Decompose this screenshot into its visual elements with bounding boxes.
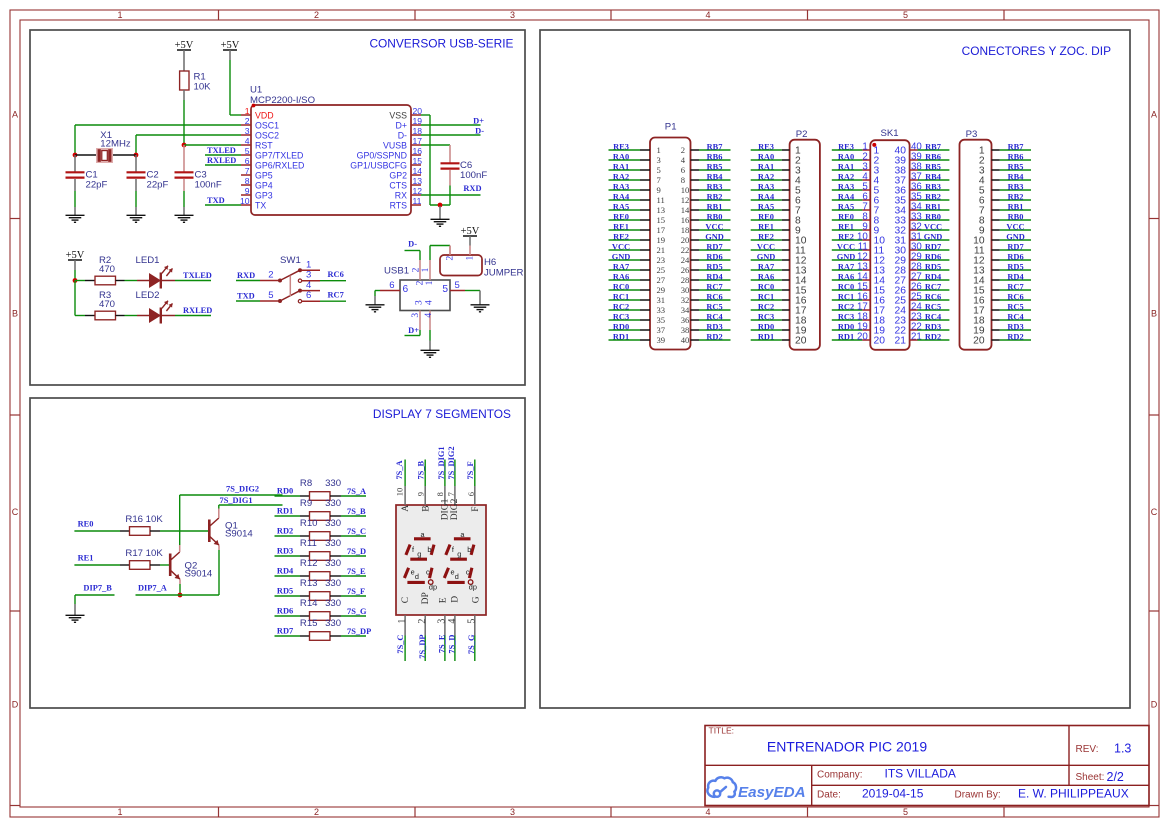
svg-text:3: 3 xyxy=(414,300,424,305)
svg-text:R13: R13 xyxy=(300,578,318,589)
svg-text:g: g xyxy=(457,549,461,558)
svg-text:C: C xyxy=(1151,507,1158,517)
svg-text:12: 12 xyxy=(413,186,423,196)
svg-text:2: 2 xyxy=(446,256,456,261)
svg-text:H6: H6 xyxy=(484,257,496,268)
svg-text:RC7: RC7 xyxy=(1007,282,1023,291)
svg-text:F: F xyxy=(471,507,481,512)
svg-text:3: 3 xyxy=(245,126,250,136)
svg-text:RB0: RB0 xyxy=(925,212,941,221)
svg-text:B: B xyxy=(12,309,18,319)
svg-text:R16 10K: R16 10K xyxy=(125,514,163,525)
svg-text:A: A xyxy=(1151,110,1157,120)
svg-text:40: 40 xyxy=(681,335,690,345)
svg-text:GP3: GP3 xyxy=(255,190,273,200)
svg-text:DIP7_A: DIP7_A xyxy=(138,584,167,593)
svg-text:RXD: RXD xyxy=(463,184,481,193)
svg-text:dp: dp xyxy=(429,583,437,592)
svg-text:5: 5 xyxy=(442,284,448,295)
svg-text:SW1: SW1 xyxy=(280,255,301,266)
svg-text:7S_DIG1: 7S_DIG1 xyxy=(220,496,253,505)
svg-text:20: 20 xyxy=(681,235,690,245)
svg-text:2: 2 xyxy=(681,145,685,155)
svg-text:2/2: 2/2 xyxy=(1107,770,1124,784)
svg-text:RC7: RC7 xyxy=(706,282,722,291)
svg-text:6: 6 xyxy=(466,492,476,496)
svg-text:36: 36 xyxy=(681,315,690,325)
svg-text:20: 20 xyxy=(413,106,423,116)
svg-text:4: 4 xyxy=(245,136,250,146)
svg-text:3: 3 xyxy=(510,10,515,20)
svg-text:RC7: RC7 xyxy=(328,291,344,300)
svg-text:VCC: VCC xyxy=(705,222,723,231)
svg-text:7S_G: 7S_G xyxy=(467,634,476,654)
svg-text:20: 20 xyxy=(874,336,886,347)
svg-text:7S_E: 7S_E xyxy=(438,634,447,653)
svg-text:29: 29 xyxy=(657,285,666,295)
svg-text:2: 2 xyxy=(245,116,250,126)
svg-text:P1: P1 xyxy=(665,122,677,133)
svg-text:8: 8 xyxy=(681,175,685,185)
svg-text:100nF: 100nF xyxy=(460,170,487,181)
svg-text:7S_DIG2: 7S_DIG2 xyxy=(226,485,259,494)
svg-text:TXLED: TXLED xyxy=(183,271,212,280)
svg-text:RE0: RE0 xyxy=(78,519,94,528)
svg-text:VUSB: VUSB xyxy=(383,140,407,150)
svg-text:20: 20 xyxy=(795,335,807,346)
svg-text:RD5: RD5 xyxy=(277,587,293,596)
svg-text:3: 3 xyxy=(411,313,421,318)
svg-text:11: 11 xyxy=(657,195,665,205)
svg-text:CONECTORES Y ZOC. DIP: CONECTORES Y ZOC. DIP xyxy=(962,44,1111,58)
svg-text:8: 8 xyxy=(435,492,445,496)
svg-text:R15: R15 xyxy=(300,618,318,629)
svg-text:26: 26 xyxy=(681,265,690,275)
svg-text:330: 330 xyxy=(325,598,341,609)
svg-text:4: 4 xyxy=(681,155,686,165)
svg-text:MCP2200-I/SO: MCP2200-I/SO xyxy=(250,95,315,106)
svg-text:D: D xyxy=(12,700,19,710)
svg-text:19: 19 xyxy=(657,235,666,245)
svg-text:VDD: VDD xyxy=(255,110,274,120)
svg-text:2019-04-15: 2019-04-15 xyxy=(862,787,924,801)
svg-text:R8: R8 xyxy=(300,478,312,489)
svg-text:RXLED: RXLED xyxy=(183,306,212,315)
svg-text:5: 5 xyxy=(245,146,250,156)
svg-text:D: D xyxy=(450,596,460,603)
svg-text:25: 25 xyxy=(657,265,666,275)
svg-text:100nF: 100nF xyxy=(195,179,222,190)
svg-text:39: 39 xyxy=(657,335,666,345)
svg-text:USB1: USB1 xyxy=(384,266,409,277)
svg-text:RD2: RD2 xyxy=(1007,332,1023,341)
svg-text:3: 3 xyxy=(306,270,311,281)
svg-text:7S_B: 7S_B xyxy=(347,507,366,516)
svg-text:g: g xyxy=(417,549,421,558)
svg-text:DISPLAY 7 SEGMENTOS: DISPLAY 7 SEGMENTOS xyxy=(373,407,511,421)
svg-text:R9: R9 xyxy=(300,498,312,509)
svg-text:R10: R10 xyxy=(300,518,318,529)
svg-text:19: 19 xyxy=(413,116,423,126)
svg-text:GP0/SSPND: GP0/SSPND xyxy=(357,150,407,160)
svg-text:4: 4 xyxy=(424,313,434,318)
svg-text:7S_C: 7S_C xyxy=(396,635,405,654)
svg-text:GP6/RXLED: GP6/RXLED xyxy=(255,160,304,170)
svg-text:15: 15 xyxy=(657,215,666,225)
svg-text:RD1: RD1 xyxy=(277,507,293,516)
svg-text:4: 4 xyxy=(705,807,710,817)
svg-text:RB2: RB2 xyxy=(925,192,941,201)
svg-text:14: 14 xyxy=(413,166,423,176)
svg-text:c: c xyxy=(466,568,470,577)
svg-text:RB7: RB7 xyxy=(707,142,723,151)
svg-text:7S_DIG2: 7S_DIG2 xyxy=(447,446,456,479)
svg-text:5: 5 xyxy=(903,807,908,817)
svg-text:GP7/TXLED: GP7/TXLED xyxy=(255,150,303,160)
svg-text:RD2: RD2 xyxy=(706,332,722,341)
svg-text:9: 9 xyxy=(415,492,425,496)
svg-text:RD7: RD7 xyxy=(706,242,722,251)
svg-text:1: 1 xyxy=(421,267,431,272)
svg-text:RST: RST xyxy=(255,140,273,150)
svg-text:330: 330 xyxy=(325,618,341,629)
svg-text:ITS VILLADA: ITS VILLADA xyxy=(885,767,956,781)
svg-text:15: 15 xyxy=(413,156,423,166)
svg-text:RD4: RD4 xyxy=(925,272,942,281)
svg-text:TX: TX xyxy=(255,200,266,210)
svg-text:7: 7 xyxy=(245,166,250,176)
svg-text:7S_B: 7S_B xyxy=(416,460,425,479)
svg-text:38: 38 xyxy=(681,325,690,335)
svg-text:RC6: RC6 xyxy=(925,292,941,301)
svg-text:7S_E: 7S_E xyxy=(347,567,366,576)
svg-text:RB1: RB1 xyxy=(707,202,723,211)
svg-text:GP5: GP5 xyxy=(255,170,273,180)
svg-text:1: 1 xyxy=(117,10,122,20)
svg-text:24: 24 xyxy=(681,255,690,265)
svg-text:RB5: RB5 xyxy=(1008,162,1024,171)
svg-text:VCC: VCC xyxy=(924,222,942,231)
svg-text:RD5: RD5 xyxy=(1007,262,1023,271)
svg-text:A: A xyxy=(12,110,18,120)
svg-text:2: 2 xyxy=(314,807,319,817)
svg-text:B: B xyxy=(421,505,431,511)
svg-text:13: 13 xyxy=(413,176,423,186)
svg-text:d: d xyxy=(415,572,419,581)
svg-text:D+: D+ xyxy=(473,116,484,125)
svg-text:4: 4 xyxy=(447,619,458,624)
svg-text:RXD: RXD xyxy=(237,271,255,280)
svg-text:2: 2 xyxy=(268,270,273,281)
svg-text:RD2: RD2 xyxy=(277,527,293,536)
svg-text:10: 10 xyxy=(394,488,404,497)
svg-text:RB2: RB2 xyxy=(1008,192,1024,201)
svg-text:TXD: TXD xyxy=(237,292,255,301)
svg-text:RD3: RD3 xyxy=(277,547,293,556)
svg-text:RD5: RD5 xyxy=(706,262,722,271)
svg-text:RD4: RD4 xyxy=(1007,272,1024,281)
svg-text:RD7: RD7 xyxy=(925,242,941,251)
svg-text:RB3: RB3 xyxy=(1008,182,1024,191)
svg-text:11: 11 xyxy=(413,196,422,206)
svg-text:RB6: RB6 xyxy=(707,152,723,161)
svg-text:GND: GND xyxy=(1006,232,1025,241)
svg-text:RD2: RD2 xyxy=(925,332,941,341)
svg-text:5: 5 xyxy=(268,290,273,301)
svg-text:RB1: RB1 xyxy=(1008,202,1024,211)
svg-text:7S_F: 7S_F xyxy=(347,587,365,596)
svg-text:RE1: RE1 xyxy=(78,553,94,562)
svg-text:14: 14 xyxy=(681,205,690,215)
svg-text:330: 330 xyxy=(325,558,341,569)
svg-text:RB4: RB4 xyxy=(1008,172,1025,181)
svg-text:7: 7 xyxy=(657,175,662,185)
svg-text:22pF: 22pF xyxy=(86,179,108,190)
svg-text:1: 1 xyxy=(117,807,122,817)
svg-text:d: d xyxy=(455,572,459,581)
svg-text:21: 21 xyxy=(895,336,907,347)
svg-text:33: 33 xyxy=(657,305,666,315)
svg-text:P3: P3 xyxy=(966,129,978,140)
svg-text:5: 5 xyxy=(466,619,477,624)
svg-text:TXD: TXD xyxy=(207,196,225,205)
svg-text:32: 32 xyxy=(681,295,690,305)
svg-text:DP: DP xyxy=(421,592,431,604)
svg-text:E: E xyxy=(438,597,448,603)
svg-text:330: 330 xyxy=(325,498,341,509)
svg-text:7: 7 xyxy=(446,492,456,496)
svg-text:30: 30 xyxy=(681,285,690,295)
svg-text:RB4: RB4 xyxy=(925,172,942,181)
svg-text:RC4: RC4 xyxy=(1007,312,1024,321)
svg-text:9: 9 xyxy=(657,185,661,195)
svg-text:18: 18 xyxy=(413,126,423,136)
svg-text:470: 470 xyxy=(99,299,115,310)
svg-text:GND: GND xyxy=(705,232,724,241)
svg-text:20: 20 xyxy=(973,335,985,346)
svg-text:RB6: RB6 xyxy=(925,152,941,161)
svg-text:RB7: RB7 xyxy=(1008,142,1024,151)
svg-text:4: 4 xyxy=(424,300,434,305)
svg-text:R11: R11 xyxy=(300,538,317,549)
svg-text:5: 5 xyxy=(455,280,460,291)
svg-text:1: 1 xyxy=(425,280,435,285)
svg-text:21: 21 xyxy=(911,332,922,343)
svg-text:7S_DP: 7S_DP xyxy=(347,627,371,636)
svg-text:VSS: VSS xyxy=(389,110,407,120)
svg-text:13: 13 xyxy=(657,205,666,215)
svg-text:D+: D+ xyxy=(396,120,408,130)
svg-text:Date:: Date: xyxy=(817,790,841,801)
svg-text:b: b xyxy=(467,545,471,554)
svg-text:2: 2 xyxy=(314,10,319,20)
svg-text:D-: D- xyxy=(408,240,417,249)
svg-text:RC7: RC7 xyxy=(925,282,941,291)
svg-text:17: 17 xyxy=(413,136,423,146)
svg-text:D-: D- xyxy=(398,130,407,140)
svg-text:7S_C: 7S_C xyxy=(347,527,366,536)
svg-text:EasyEDA: EasyEDA xyxy=(738,784,806,801)
svg-text:OSC2: OSC2 xyxy=(255,130,279,140)
svg-text:R14: R14 xyxy=(300,598,318,609)
svg-text:1.3: 1.3 xyxy=(1114,742,1131,756)
svg-text:RB6: RB6 xyxy=(1008,152,1024,161)
svg-text:DIP7_B: DIP7_B xyxy=(83,584,112,593)
svg-text:R17 10K: R17 10K xyxy=(125,548,163,559)
svg-text:A: A xyxy=(401,505,411,512)
svg-text:4: 4 xyxy=(705,10,710,20)
svg-text:28: 28 xyxy=(681,275,690,285)
svg-text:RC6: RC6 xyxy=(328,270,344,279)
svg-text:ENTRENADOR PIC 2019: ENTRENADOR PIC 2019 xyxy=(767,739,927,755)
svg-text:22: 22 xyxy=(681,245,690,255)
svg-text:GND: GND xyxy=(924,232,943,241)
svg-text:RD3: RD3 xyxy=(925,322,941,331)
svg-text:22pF: 22pF xyxy=(147,179,169,190)
svg-text:REV:: REV: xyxy=(1076,744,1099,755)
svg-text:6: 6 xyxy=(306,290,311,301)
svg-text:RB0: RB0 xyxy=(707,212,723,221)
svg-text:RB0: RB0 xyxy=(1008,212,1024,221)
svg-text:7S_A: 7S_A xyxy=(347,487,366,496)
svg-text:C: C xyxy=(401,597,411,603)
svg-text:RC4: RC4 xyxy=(706,312,723,321)
svg-text:D: D xyxy=(1151,700,1158,710)
svg-text:G: G xyxy=(471,596,481,603)
svg-text:330: 330 xyxy=(325,518,341,529)
svg-text:18: 18 xyxy=(681,225,690,235)
svg-text:470: 470 xyxy=(99,264,115,275)
svg-text:RB3: RB3 xyxy=(925,182,941,191)
svg-text:RD6: RD6 xyxy=(277,607,293,616)
svg-text:2: 2 xyxy=(415,280,425,285)
svg-text:DIG2: DIG2 xyxy=(450,498,460,520)
svg-text:LED2: LED2 xyxy=(136,290,160,301)
svg-text:1: 1 xyxy=(397,619,408,624)
svg-text:RD3: RD3 xyxy=(706,322,722,331)
svg-text:20: 20 xyxy=(857,332,868,343)
svg-text:S9014: S9014 xyxy=(185,568,213,579)
svg-text:C: C xyxy=(12,507,19,517)
svg-text:RD5: RD5 xyxy=(925,262,941,271)
svg-text:GP2: GP2 xyxy=(389,170,407,180)
svg-text:7S_F: 7S_F xyxy=(466,461,475,479)
svg-text:LED1: LED1 xyxy=(136,255,160,266)
svg-text:RD7: RD7 xyxy=(1007,242,1023,251)
svg-text:10: 10 xyxy=(681,185,690,195)
svg-text:5: 5 xyxy=(903,10,908,20)
svg-text:7S_D: 7S_D xyxy=(347,547,366,556)
svg-text:7S_DP: 7S_DP xyxy=(418,635,427,659)
svg-text:34: 34 xyxy=(681,305,690,315)
svg-text:RC4: RC4 xyxy=(925,312,942,321)
svg-text:RD0: RD0 xyxy=(277,487,293,496)
svg-text:6: 6 xyxy=(389,280,394,291)
svg-text:RB1: RB1 xyxy=(925,202,941,211)
svg-text:37: 37 xyxy=(657,325,666,335)
svg-text:6: 6 xyxy=(245,156,250,166)
svg-text:GP1/USBCFG: GP1/USBCFG xyxy=(350,160,407,170)
svg-text:D+: D+ xyxy=(408,326,419,335)
svg-text:RB7: RB7 xyxy=(925,142,941,151)
svg-text:10K: 10K xyxy=(194,82,212,93)
svg-text:JUMPER: JUMPER xyxy=(484,268,524,279)
svg-text:GP4: GP4 xyxy=(255,180,273,190)
svg-text:35: 35 xyxy=(657,315,666,325)
svg-text:RB5: RB5 xyxy=(707,162,723,171)
svg-text:330: 330 xyxy=(325,538,341,549)
svg-text:16: 16 xyxy=(413,146,423,156)
svg-text:16: 16 xyxy=(681,215,690,225)
svg-text:DIG1: DIG1 xyxy=(440,498,450,520)
svg-text:12: 12 xyxy=(681,195,690,205)
svg-text:6: 6 xyxy=(403,284,409,295)
svg-text:RX: RX xyxy=(395,190,407,200)
svg-text:TXLED: TXLED xyxy=(207,146,236,155)
svg-text:RTS: RTS xyxy=(390,200,408,210)
svg-text:U1: U1 xyxy=(250,85,262,96)
svg-text:S9014: S9014 xyxy=(225,528,253,539)
svg-text:RB4: RB4 xyxy=(707,172,724,181)
svg-text:CONVERSOR USB-SERIE: CONVERSOR USB-SERIE xyxy=(369,37,513,51)
svg-text:RB5: RB5 xyxy=(925,162,941,171)
svg-text:VCC: VCC xyxy=(1006,222,1024,231)
svg-text:7S_DIG1: 7S_DIG1 xyxy=(437,446,446,479)
svg-text:Drawn By:: Drawn By: xyxy=(955,790,1001,801)
svg-text:1: 1 xyxy=(657,145,661,155)
svg-text:7S_D: 7S_D xyxy=(448,635,457,654)
svg-text:B: B xyxy=(1151,309,1157,319)
svg-text:RD4: RD4 xyxy=(706,272,723,281)
svg-text:2: 2 xyxy=(417,619,428,624)
svg-text:Company:: Company: xyxy=(817,770,863,781)
svg-text:330: 330 xyxy=(325,478,341,489)
svg-text:RD7: RD7 xyxy=(277,627,293,636)
svg-text:RB2: RB2 xyxy=(707,192,723,201)
svg-text:b: b xyxy=(427,545,431,554)
svg-text:RC5: RC5 xyxy=(925,302,941,311)
svg-text:RD6: RD6 xyxy=(925,252,941,261)
svg-text:SK1: SK1 xyxy=(881,128,899,139)
svg-text:12MHz: 12MHz xyxy=(100,139,131,150)
svg-text:RC6: RC6 xyxy=(706,292,722,301)
svg-text:RC5: RC5 xyxy=(1007,302,1023,311)
svg-text:Sheet:: Sheet: xyxy=(1076,772,1105,783)
svg-text:31: 31 xyxy=(657,295,666,305)
svg-text:6: 6 xyxy=(681,165,686,175)
svg-text:RD3: RD3 xyxy=(1007,322,1023,331)
svg-text:P2: P2 xyxy=(796,129,808,140)
svg-text:330: 330 xyxy=(325,578,341,589)
svg-text:OSC1: OSC1 xyxy=(255,120,279,130)
svg-text:10: 10 xyxy=(240,196,250,206)
svg-text:D-: D- xyxy=(475,126,484,135)
svg-text:RD6: RD6 xyxy=(1007,252,1023,261)
svg-text:E. W. PHILIPPEAUX: E. W. PHILIPPEAUX xyxy=(1018,787,1129,801)
svg-text:RB3: RB3 xyxy=(707,182,723,191)
svg-text:9: 9 xyxy=(245,186,250,196)
svg-text:5: 5 xyxy=(657,165,661,175)
svg-text:27: 27 xyxy=(657,275,666,285)
svg-text:3: 3 xyxy=(510,807,515,817)
svg-text:RD6: RD6 xyxy=(706,252,722,261)
svg-text:RC6: RC6 xyxy=(1007,292,1023,301)
svg-text:1: 1 xyxy=(466,256,476,261)
svg-text:8: 8 xyxy=(245,176,250,186)
svg-text:1: 1 xyxy=(245,106,250,116)
svg-text:TITLE:: TITLE: xyxy=(709,726,735,736)
svg-text:c: c xyxy=(426,568,430,577)
